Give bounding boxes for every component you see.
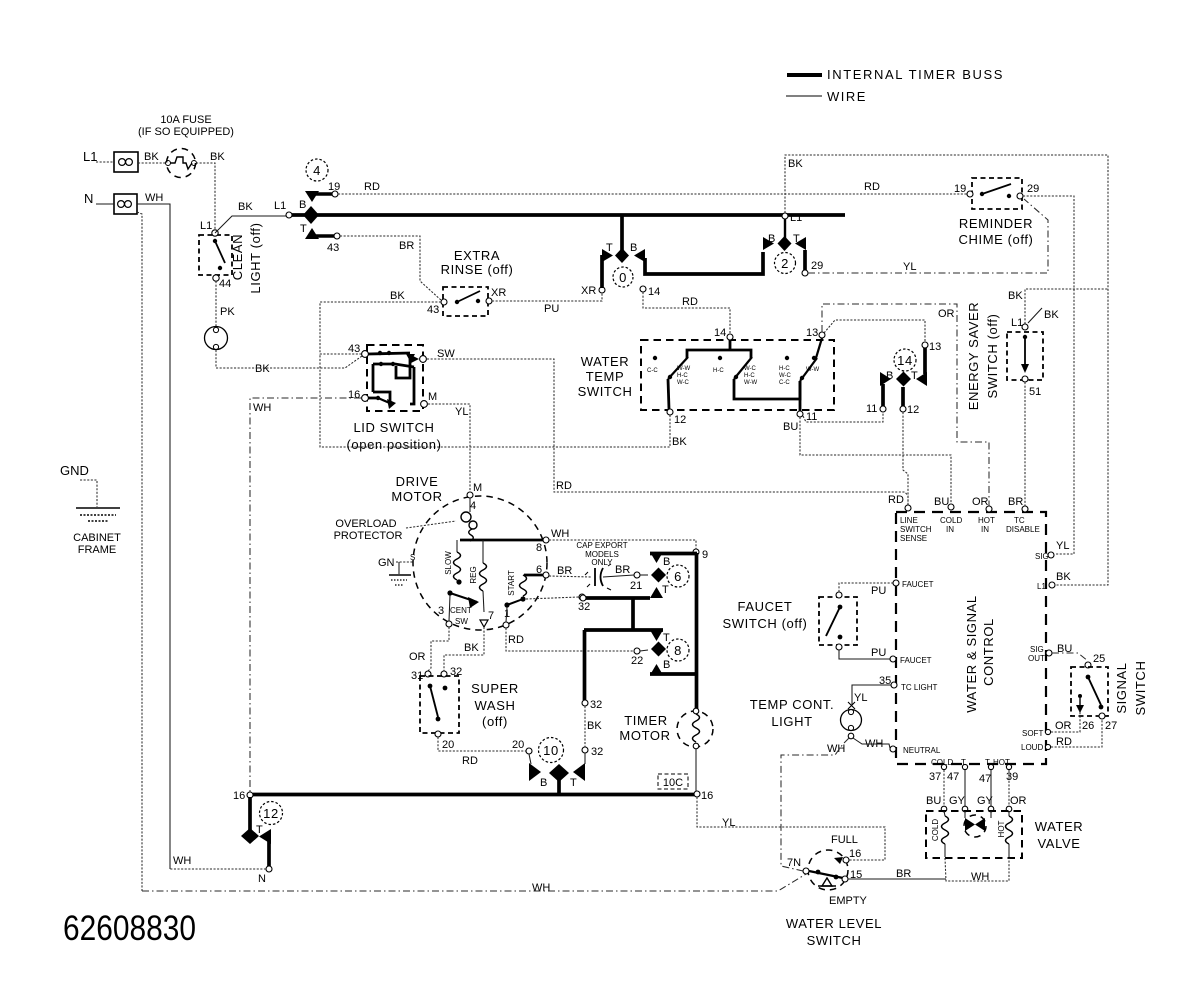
svg-text:12: 12 bbox=[907, 404, 919, 416]
svg-text:8: 8 bbox=[536, 542, 542, 554]
wire WH motor to buss node 9 bbox=[549, 528, 696, 549]
svg-text:SW: SW bbox=[455, 617, 468, 626]
svg-text:MOTOR: MOTOR bbox=[619, 728, 670, 743]
buss node 9 junction bbox=[693, 549, 708, 561]
svg-text:RINSE (off): RINSE (off) bbox=[441, 262, 514, 277]
svg-text:12: 12 bbox=[263, 806, 279, 821]
wire BR 43 to extra rinse bbox=[340, 236, 442, 301]
svg-text:BU: BU bbox=[926, 795, 941, 807]
svg-text:H-C: H-C bbox=[744, 373, 755, 379]
svg-text:OR: OR bbox=[972, 496, 989, 508]
svg-text:HOT: HOT bbox=[997, 820, 1006, 837]
wire RD node14-12 down to line switch sense bbox=[903, 412, 908, 505]
svg-text:OUT: OUT bbox=[1028, 654, 1045, 663]
svg-text:7: 7 bbox=[488, 610, 494, 622]
svg-text:GN: GN bbox=[378, 557, 395, 569]
svg-text:16: 16 bbox=[701, 790, 713, 802]
svg-text:WH: WH bbox=[532, 882, 550, 894]
extra rinse switch (dashed box) bbox=[427, 287, 506, 316]
WTS contact W-W and blade 4 bbox=[806, 338, 822, 373]
water valve solenoid symbol bbox=[964, 811, 991, 837]
wire M YL to drive motor bbox=[428, 404, 470, 492]
svg-text:GND: GND bbox=[60, 463, 89, 478]
svg-text:13: 13 bbox=[929, 341, 941, 353]
wire BK energy saver L1 bbox=[1008, 289, 1108, 324]
svg-text:SWITCH: SWITCH bbox=[1133, 661, 1148, 716]
svg-text:B: B bbox=[299, 199, 306, 211]
svg-text:OR: OR bbox=[938, 308, 955, 320]
svg-text:PROTECTOR: PROTECTOR bbox=[334, 530, 403, 542]
svg-text:B: B bbox=[630, 242, 637, 254]
svg-text:LINE: LINE bbox=[900, 516, 918, 525]
svg-text:(open position): (open position) bbox=[347, 437, 442, 452]
SLOW winding bbox=[444, 540, 462, 585]
svg-text:BR: BR bbox=[615, 564, 630, 576]
svg-text:WH: WH bbox=[253, 402, 271, 414]
timer motor (dashed circle) bbox=[619, 708, 713, 791]
timer cam node 12 bbox=[241, 797, 283, 885]
wire PU faucet bottom bbox=[839, 647, 890, 659]
pin BR tc disable bbox=[1006, 496, 1040, 534]
svg-text:BU: BU bbox=[783, 421, 798, 433]
wire N WH right then down bbox=[137, 192, 170, 869]
svg-text:START: START bbox=[507, 570, 516, 596]
svg-text:YL: YL bbox=[854, 692, 867, 704]
svg-text:32: 32 bbox=[578, 601, 590, 613]
svg-text:L1: L1 bbox=[790, 212, 802, 224]
wire SW lid to right bbox=[427, 348, 908, 506]
pin NEUTRAL bbox=[890, 746, 941, 755]
svg-text:11: 11 bbox=[806, 411, 817, 423]
wire BK motor 7 to super wash 32 bbox=[444, 627, 484, 671]
REG winding bbox=[469, 540, 487, 612]
wire L1 BK to fuse bbox=[138, 151, 166, 163]
svg-text:6: 6 bbox=[536, 564, 542, 576]
svg-text:FAUCET: FAUCET bbox=[738, 599, 793, 614]
timer cam node 10 bbox=[529, 738, 585, 794]
capacitor bbox=[585, 564, 611, 590]
svg-text:BU: BU bbox=[934, 496, 949, 508]
svg-text:27: 27 bbox=[1105, 720, 1117, 732]
svg-text:BR: BR bbox=[557, 565, 572, 577]
svg-text:M: M bbox=[428, 391, 437, 403]
node circle 4 bbox=[306, 159, 328, 181]
svg-text:L1: L1 bbox=[274, 200, 286, 212]
WTS terminal 11 bbox=[797, 411, 817, 423]
wire BK WTS12 loop left bbox=[320, 355, 687, 448]
svg-text:FULL: FULL bbox=[831, 834, 858, 846]
svg-text:L1: L1 bbox=[83, 149, 97, 164]
svg-text:BK: BK bbox=[144, 151, 159, 163]
svg-text:GY: GY bbox=[977, 795, 994, 807]
svg-text:4: 4 bbox=[313, 163, 321, 178]
svg-text:PU: PU bbox=[544, 303, 559, 315]
svg-text:21: 21 bbox=[630, 580, 642, 592]
svg-text:CLEAN: CLEAN bbox=[230, 234, 245, 280]
svg-text:ONLY: ONLY bbox=[591, 558, 613, 567]
svg-text:32: 32 bbox=[591, 746, 603, 758]
svg-text:TEMP CONT.: TEMP CONT. bbox=[750, 697, 835, 712]
legend internal timer buss bbox=[787, 67, 1004, 82]
wire WH under water valve bbox=[945, 858, 1009, 883]
svg-text:BK: BK bbox=[1056, 571, 1071, 583]
WTS terminal 14 bbox=[714, 327, 733, 340]
wire 13 to OR hot in bbox=[822, 304, 989, 506]
svg-text:H-C: H-C bbox=[713, 368, 724, 374]
svg-text:BK: BK bbox=[238, 201, 253, 213]
thick buss vertical right bbox=[695, 553, 699, 709]
svg-text:OR: OR bbox=[1055, 720, 1072, 732]
svg-text:4: 4 bbox=[470, 500, 476, 512]
svg-text:SLOW: SLOW bbox=[444, 551, 453, 575]
svg-text:SENSE: SENSE bbox=[900, 534, 927, 543]
timer cam node 2 bbox=[763, 212, 823, 276]
svg-text:20: 20 bbox=[512, 739, 524, 751]
svg-text:SIG: SIG bbox=[1035, 552, 1049, 561]
svg-text:CABINET: CABINET bbox=[73, 532, 121, 544]
svg-text:14: 14 bbox=[897, 353, 913, 368]
svg-text:NEUTRAL: NEUTRAL bbox=[903, 746, 941, 755]
svg-text:H-C: H-C bbox=[677, 373, 688, 379]
svg-text:WATER: WATER bbox=[581, 354, 630, 369]
svg-text:C-C: C-C bbox=[779, 380, 790, 386]
svg-text:CENT: CENT bbox=[450, 606, 472, 615]
junction 32 on thick line bbox=[580, 595, 586, 601]
svg-text:W-W: W-W bbox=[806, 367, 820, 373]
svg-text:BK: BK bbox=[255, 363, 270, 375]
terminal L1 bbox=[83, 149, 138, 172]
svg-text:LIGHT (off): LIGHT (off) bbox=[248, 222, 263, 293]
WTS contact 3 bbox=[779, 356, 792, 386]
svg-text:B: B bbox=[540, 777, 547, 789]
svg-text:32: 32 bbox=[590, 699, 602, 711]
pin 35 TC LIGHT bbox=[879, 675, 938, 692]
svg-text:L1: L1 bbox=[1037, 582, 1046, 591]
wire BR 51 down to TC DISABLE bbox=[1024, 382, 1026, 506]
svg-text:47: 47 bbox=[979, 773, 991, 785]
terminal N bbox=[84, 191, 137, 214]
temp cont light bulb bbox=[841, 709, 862, 738]
svg-text:OR: OR bbox=[1010, 795, 1027, 807]
label CAP EXPORT MODELS ONLY bbox=[576, 541, 627, 567]
wire WH light to water level 7N bbox=[781, 738, 849, 871]
svg-text:LID SWITCH: LID SWITCH bbox=[353, 420, 434, 435]
wire BK 32 to 32 bbox=[582, 706, 603, 764]
timer contact 19 (node4 B arrow) bbox=[305, 181, 340, 202]
svg-text:SWITCH: SWITCH bbox=[578, 384, 633, 399]
svg-text:B: B bbox=[663, 659, 670, 671]
svg-text:RD: RD bbox=[1056, 736, 1072, 748]
wire YL tc light bbox=[848, 685, 891, 709]
drive motor (dashed circle) bbox=[413, 496, 547, 630]
svg-text:12: 12 bbox=[674, 414, 686, 426]
svg-text:MOTOR: MOTOR bbox=[391, 489, 442, 504]
svg-text:YL: YL bbox=[455, 406, 468, 418]
svg-text:L1: L1 bbox=[1011, 317, 1023, 329]
svg-text:WATER LEVEL: WATER LEVEL bbox=[786, 916, 882, 931]
svg-text:10C: 10C bbox=[663, 777, 683, 789]
svg-text:13: 13 bbox=[806, 327, 818, 339]
svg-text:XR: XR bbox=[581, 285, 596, 297]
signal switch (dashed box) bbox=[1071, 653, 1117, 732]
svg-text:IN: IN bbox=[981, 525, 989, 534]
terminal M of motor bbox=[467, 482, 482, 512]
wire PU faucet top bbox=[839, 583, 893, 597]
wire RD loud to 27 bbox=[1051, 719, 1102, 748]
svg-text:WH: WH bbox=[551, 528, 569, 540]
svg-text:EXTRA: EXTRA bbox=[454, 248, 500, 263]
svg-text:37: 37 bbox=[929, 771, 941, 783]
svg-text:BK: BK bbox=[210, 151, 225, 163]
svg-text:B: B bbox=[663, 556, 670, 568]
wire 13 to node14 T bbox=[824, 320, 925, 342]
svg-text:62608830: 62608830 bbox=[63, 909, 196, 948]
svg-text:0: 0 bbox=[619, 270, 627, 285]
wire YL node2 T to reminder chime 29 bbox=[808, 199, 1048, 273]
clean light bulb bbox=[205, 327, 228, 350]
svg-text:BR: BR bbox=[1008, 496, 1023, 508]
svg-text:CAP EXPORT: CAP EXPORT bbox=[576, 541, 627, 550]
svg-text:20: 20 bbox=[442, 739, 454, 751]
legend wire bbox=[786, 89, 867, 104]
node 4 diamond on buss bbox=[303, 206, 319, 224]
svg-text:16: 16 bbox=[233, 790, 245, 802]
wire light BK to lid switch 43 bbox=[216, 350, 362, 375]
svg-text:PU: PU bbox=[871, 585, 886, 597]
motor internal bus bbox=[460, 539, 543, 542]
svg-text:11: 11 bbox=[866, 403, 877, 415]
pin SIG right top bbox=[1035, 552, 1054, 561]
svg-text:DRIVE: DRIVE bbox=[396, 474, 439, 489]
WTS internal bus from 14 bbox=[687, 340, 751, 358]
pin SIG OUT bbox=[1028, 645, 1052, 663]
wire PU XR to node 0 bbox=[492, 285, 605, 315]
svg-text:W-C: W-C bbox=[744, 366, 757, 372]
svg-text:BR: BR bbox=[399, 240, 414, 252]
svg-text:M: M bbox=[473, 482, 482, 494]
svg-text:CHIME (off): CHIME (off) bbox=[959, 232, 1034, 247]
svg-text:ENERGY SAVER: ENERGY SAVER bbox=[966, 302, 981, 411]
svg-text:N: N bbox=[258, 873, 266, 885]
terminal 7 bbox=[480, 610, 494, 627]
water valve (dashed box) bbox=[926, 806, 1022, 858]
svg-text:L1: L1 bbox=[200, 220, 212, 232]
timer cam node 0 bbox=[602, 215, 763, 288]
timer contact 43 (node4 T arrow) bbox=[305, 228, 340, 254]
svg-text:PK: PK bbox=[220, 306, 235, 318]
svg-text:RD: RD bbox=[508, 634, 524, 646]
svg-text:RD: RD bbox=[682, 296, 698, 308]
svg-text:W-W: W-W bbox=[677, 366, 691, 372]
pin SOFT bbox=[1022, 729, 1051, 738]
svg-text:BR: BR bbox=[896, 868, 911, 880]
svg-text:RD: RD bbox=[864, 181, 880, 193]
wire BK extra rinse left bbox=[320, 290, 441, 354]
terminal 1 bbox=[503, 599, 523, 628]
svg-text:14: 14 bbox=[648, 286, 660, 298]
wire WTS11 to node14 11 bbox=[803, 412, 883, 422]
svg-text:T: T bbox=[300, 223, 307, 235]
svg-text:SUPER: SUPER bbox=[471, 681, 519, 696]
svg-text:N: N bbox=[84, 191, 93, 206]
svg-text:19: 19 bbox=[954, 183, 966, 195]
svg-text:22: 22 bbox=[631, 655, 643, 667]
svg-text:VALVE: VALVE bbox=[1038, 836, 1081, 851]
svg-text:RD: RD bbox=[462, 755, 478, 767]
svg-text:RD: RD bbox=[364, 181, 380, 193]
fuse 10A (dashed circle) bbox=[166, 149, 197, 178]
pin OR hot in bbox=[972, 496, 995, 534]
wire BU WTS11 to COLD IN bbox=[783, 417, 951, 504]
overload protector bbox=[334, 498, 477, 542]
svg-text:6: 6 bbox=[674, 569, 682, 584]
svg-text:FAUCET: FAUCET bbox=[900, 656, 932, 665]
svg-text:2: 2 bbox=[781, 256, 789, 271]
wire RD node0-14 to water temp switch bbox=[643, 292, 730, 334]
label WATER & SIGNAL CONTROL rotated bbox=[964, 595, 996, 712]
svg-text:(off): (off) bbox=[482, 714, 508, 729]
clean light switch (dashed box) bbox=[199, 220, 232, 290]
wire BU sig out to signal switch 25 bbox=[1052, 643, 1088, 661]
wire RD super wash 20 to node 10 bbox=[438, 737, 532, 767]
svg-text:PU: PU bbox=[871, 647, 886, 659]
svg-text:BK: BK bbox=[1008, 290, 1023, 302]
wires W&S to water valve bbox=[926, 770, 1027, 807]
svg-text:T: T bbox=[663, 632, 670, 644]
wire BR water level 15 to valve bbox=[848, 868, 946, 880]
pin BU cold in bbox=[934, 496, 962, 534]
svg-text:S: S bbox=[410, 553, 415, 562]
svg-text:16: 16 bbox=[348, 389, 360, 401]
svg-text:BK: BK bbox=[587, 720, 602, 732]
svg-text:(IF SO EQUIPPED): (IF SO EQUIPPED) bbox=[138, 126, 234, 138]
water temp switch dashed box bbox=[641, 340, 834, 410]
label ENERGY SAVER SWITCH (off) rotated bbox=[966, 302, 1000, 411]
svg-text:XR: XR bbox=[491, 287, 506, 299]
svg-text:10A FUSE: 10A FUSE bbox=[160, 114, 211, 126]
wire OR soft to 26 bbox=[1051, 710, 1080, 732]
WTS blade 2 bbox=[734, 357, 800, 399]
water level switch (dashed circle) bbox=[787, 850, 849, 890]
svg-text:25: 25 bbox=[1093, 653, 1105, 665]
svg-text:43: 43 bbox=[327, 242, 339, 254]
svg-text:SWITCH: SWITCH bbox=[900, 525, 932, 534]
water & signal control (dashed box) bbox=[896, 512, 1046, 764]
label CLEAN LIGHT (off) rotated bbox=[230, 222, 263, 293]
svg-text:T: T bbox=[256, 824, 263, 836]
svg-text:YL: YL bbox=[903, 261, 916, 273]
labels FULL 16 15 EMPTY bbox=[829, 834, 868, 907]
label SIGNAL SWITCH rotated bbox=[1114, 661, 1148, 716]
timer cam node 14 bbox=[866, 341, 941, 416]
label 10C bbox=[658, 774, 688, 789]
svg-text:3: 3 bbox=[438, 605, 444, 617]
svg-text:SIG: SIG bbox=[1030, 645, 1044, 654]
svg-text:REG: REG bbox=[469, 566, 478, 583]
WTS contact H-C bbox=[713, 356, 724, 374]
svg-text:BK: BK bbox=[788, 158, 803, 170]
wire WH light to neutral bbox=[853, 738, 890, 750]
svg-text:WH: WH bbox=[145, 192, 163, 204]
START winding bbox=[507, 570, 544, 601]
junction 16 on buss right bbox=[694, 790, 713, 802]
wire BK node2 L1 up and right bbox=[785, 155, 1108, 585]
pin LOUD bbox=[1021, 743, 1051, 752]
terminal 32 of motor bbox=[526, 594, 590, 613]
reminder chime switch (dashed box) bbox=[954, 178, 1039, 209]
svg-text:OR: OR bbox=[409, 651, 426, 663]
thick buss bottom horizontal bbox=[233, 790, 697, 802]
svg-text:INTERNAL TIMER BUSS: INTERNAL TIMER BUSS bbox=[827, 67, 1004, 82]
svg-text:BK: BK bbox=[1044, 309, 1059, 321]
svg-text:RD: RD bbox=[888, 494, 904, 506]
svg-text:T: T bbox=[911, 370, 918, 382]
svg-text:WATER & SIGNAL: WATER & SIGNAL bbox=[964, 595, 979, 712]
svg-text:SW: SW bbox=[437, 348, 455, 360]
svg-text:HOT: HOT bbox=[978, 516, 995, 525]
pin FAUCET 1 bbox=[893, 580, 934, 589]
svg-text:WATER: WATER bbox=[1035, 819, 1084, 834]
svg-text:T: T bbox=[570, 777, 577, 789]
svg-text:9: 9 bbox=[702, 549, 708, 561]
svg-text:7N: 7N bbox=[787, 857, 801, 869]
water valve HOT coil bbox=[997, 811, 1013, 857]
WTS terminal 13 bbox=[806, 327, 825, 339]
wire YL buss to water level FULL bbox=[697, 797, 885, 860]
wire fuse BK down to clean light bbox=[196, 151, 225, 230]
svg-text:29: 29 bbox=[811, 260, 823, 272]
pin RD line switch sense bbox=[900, 505, 932, 543]
svg-text:FRAME: FRAME bbox=[78, 544, 117, 556]
svg-text:TC: TC bbox=[1014, 516, 1025, 525]
svg-text:SWITCH (off): SWITCH (off) bbox=[723, 616, 808, 631]
svg-text:WH: WH bbox=[173, 855, 191, 867]
svg-text:43: 43 bbox=[348, 343, 360, 355]
svg-text:RD: RD bbox=[556, 480, 572, 492]
wire WH node12 N to left bbox=[170, 855, 266, 869]
svg-text:TIMER: TIMER bbox=[624, 713, 667, 728]
svg-text:TEMP: TEMP bbox=[586, 369, 625, 384]
wire BR capacitor to 21 bbox=[603, 564, 648, 592]
svg-text:39: 39 bbox=[1006, 771, 1018, 783]
terminal B of motor to capacitor bbox=[536, 564, 591, 578]
svg-text:35: 35 bbox=[879, 675, 891, 687]
svg-text:16: 16 bbox=[849, 848, 861, 860]
WTS blade 3 bbox=[800, 358, 817, 411]
svg-text:OVERLOAD: OVERLOAD bbox=[335, 518, 396, 530]
wire 16 lid to left bbox=[250, 398, 361, 792]
svg-text:W-C: W-C bbox=[779, 373, 792, 379]
svg-text:DISABLE: DISABLE bbox=[1006, 525, 1040, 534]
wire N second vertical down to bottom WH line bbox=[137, 212, 142, 891]
wire 44 PK down to light bbox=[216, 281, 235, 327]
svg-text:IN: IN bbox=[946, 525, 954, 534]
svg-text:T: T bbox=[662, 584, 669, 596]
pins COLD T / T HOT bottom bbox=[929, 758, 1018, 785]
faucet switch (dashed box) bbox=[819, 592, 857, 650]
lid switch (dashed box) bbox=[348, 343, 437, 411]
svg-text:26: 26 bbox=[1082, 720, 1094, 732]
terminal S and GN ground bbox=[378, 553, 415, 585]
wire BK L1 clean light to buss bbox=[215, 200, 292, 233]
timer cam node 8 bbox=[584, 630, 697, 675]
svg-text:29: 29 bbox=[1027, 183, 1039, 195]
WTS terminal 12 bbox=[667, 409, 686, 426]
svg-text:REMINDER: REMINDER bbox=[959, 216, 1033, 231]
thick buss from node6T down to node10 bbox=[582, 630, 602, 711]
wire chime 29 down to SIG bbox=[1023, 196, 1074, 554]
svg-text:10: 10 bbox=[543, 743, 559, 758]
